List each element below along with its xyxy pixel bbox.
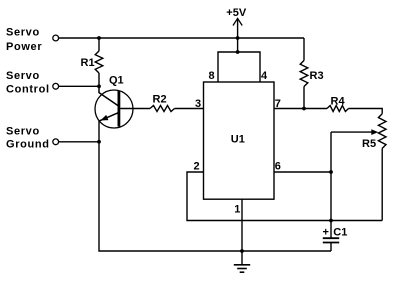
terminal: servo power bbox=[53, 35, 59, 41]
pin 1 bbox=[234, 203, 240, 215]
svg-text:2: 2 bbox=[194, 160, 200, 172]
wire: Q1 emitter bbox=[99, 113, 118, 121]
node Servo Power label bbox=[6, 26, 42, 53]
power +5V arrow bbox=[233, 18, 242, 25]
wire: R5 wiper arrow bbox=[331, 131, 372, 133]
svg-text:Control: Control bbox=[6, 83, 50, 95]
svg-text:R4: R4 bbox=[331, 96, 346, 108]
svg-text:+5V: +5V bbox=[226, 7, 247, 19]
svg-text:Servo: Servo bbox=[6, 70, 40, 82]
svg-text:4: 4 bbox=[261, 70, 268, 82]
pin 6 bbox=[275, 160, 281, 172]
terminal: servo control bbox=[53, 83, 59, 89]
wire: pin 7 to R3 node bbox=[274, 108, 304, 110]
svg-text:Servo: Servo bbox=[6, 126, 40, 138]
svg-text:U1: U1 bbox=[231, 133, 245, 145]
ground bbox=[241, 251, 243, 265]
wire: R4 to R5 top bbox=[349, 109, 383, 114]
pin 2 bbox=[194, 160, 200, 172]
svg-text:Q1: Q1 bbox=[109, 75, 124, 87]
svg-text:R3: R3 bbox=[310, 70, 324, 82]
svg-text:Power: Power bbox=[6, 41, 42, 53]
wire: Q1 base to R2 bbox=[120, 108, 150, 110]
junction: power rail / +5V bbox=[236, 36, 240, 40]
node Servo Ground label bbox=[6, 126, 50, 151]
wire: pin 2 loop to cap rail bbox=[187, 172, 382, 221]
pin 4 bbox=[261, 70, 268, 82]
svg-text:R2: R2 bbox=[153, 94, 167, 106]
resistor R3 bbox=[303, 38, 305, 61]
potentiometer R5 bbox=[378, 114, 386, 149]
transistor Q1 bbox=[109, 75, 124, 87]
svg-text:3: 3 bbox=[195, 98, 201, 110]
wire: pin 1 down to ground rail bbox=[241, 199, 243, 251]
junction: pin6 / wiper bbox=[329, 170, 333, 174]
wire: servo control to base node bbox=[59, 85, 99, 87]
wire: servo ground to emitter node bbox=[59, 141, 99, 143]
resistor R2 bbox=[150, 106, 175, 112]
svg-text:R5: R5 bbox=[362, 138, 376, 150]
wire: R2 to pin 3 bbox=[175, 108, 204, 110]
wire: Q1 collector bbox=[99, 86, 118, 105]
pin 8 bbox=[209, 70, 215, 82]
pin 3 bbox=[195, 98, 201, 110]
resistor R1 bbox=[98, 38, 100, 51]
op-amp U1 (555 IC body) bbox=[204, 82, 275, 199]
junction: ground rail / pin1 / ground symbol bbox=[240, 249, 244, 253]
junction: ground terminal / emitter bbox=[97, 140, 101, 144]
svg-text:8: 8 bbox=[209, 70, 215, 82]
node Servo Control label bbox=[6, 70, 50, 96]
wire: wiper down to pin6/cap node bbox=[330, 132, 332, 238]
junction: +5V / IC top bbox=[236, 50, 240, 54]
svg-text:Servo: Servo bbox=[6, 26, 40, 38]
svg-text:6: 6 bbox=[275, 160, 281, 172]
junction: cap rail / C1 bbox=[329, 219, 333, 223]
terminal: servo ground bbox=[53, 139, 59, 145]
junction: control / R1 / collector bbox=[97, 84, 101, 88]
wire: +5V down to IC top bbox=[237, 18, 239, 52]
svg-text:C1: C1 bbox=[333, 226, 347, 238]
capacitor C1 bbox=[323, 237, 339, 239]
wire: servo power rail (top, to R3 corner) bbox=[59, 37, 304, 39]
junction: power rail / R1 bbox=[97, 36, 101, 40]
svg-text:+: + bbox=[323, 226, 329, 238]
resistor R4 bbox=[304, 108, 327, 110]
svg-text:Ground: Ground bbox=[6, 139, 50, 151]
wire: emitter down to ground rail bbox=[99, 121, 331, 251]
power +5V label bbox=[226, 7, 247, 19]
wire: IC top extension (pins 8/4) bbox=[218, 52, 260, 82]
svg-text:R1: R1 bbox=[81, 57, 95, 69]
wire: pin 6 to wiper node bbox=[274, 171, 331, 173]
pin 7 bbox=[275, 98, 281, 110]
junction: pin7 / R3 / R4 bbox=[302, 107, 306, 111]
svg-text:1: 1 bbox=[234, 203, 240, 215]
